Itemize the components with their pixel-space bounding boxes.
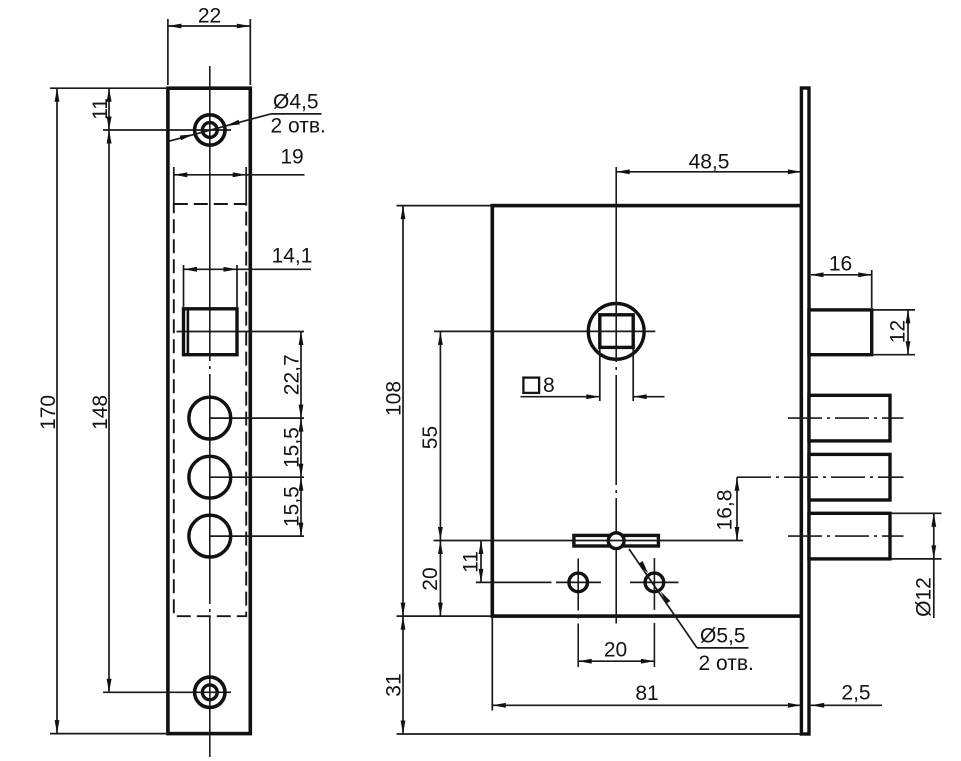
latch hole horizontal centerline: [177, 331, 305, 333]
svg-text:8: 8: [543, 374, 555, 397]
svg-text:108: 108: [383, 381, 406, 416]
svg-text:16,8: 16,8: [714, 490, 737, 531]
bolt hole 3 centerline: [210, 535, 304, 537]
dimension 81 body width: [492, 616, 801, 710]
faceplate front view outline: [168, 88, 250, 733]
svg-text:11: 11: [460, 551, 483, 573]
svg-text:170: 170: [37, 395, 60, 430]
dimension square 8 spindle hole: [521, 347, 665, 401]
dimension 16 latch protrusion: [810, 252, 872, 308]
svg-text:2 отв.: 2 отв.: [699, 652, 754, 675]
bolt hole 2: [189, 456, 231, 498]
svg-text:48,5: 48,5: [689, 151, 730, 174]
deadbolt 3 side view: [809, 513, 890, 559]
latch bolt side view: [809, 310, 872, 355]
svg-text:22: 22: [198, 5, 221, 28]
svg-text:55: 55: [419, 426, 442, 449]
fixing hole right: [645, 573, 664, 592]
svg-text:2 отв.: 2 отв.: [271, 115, 326, 138]
spindle square hole 8mm: [600, 315, 633, 348]
cam bar centerline: [434, 540, 744, 542]
dimension 170 faceplate height: [37, 88, 166, 733]
dimension 16,8 deadbolt2 to cam: [714, 477, 740, 540]
spindle vertical centerline: [615, 167, 617, 624]
svg-text:81: 81: [635, 682, 658, 705]
bolt hole 2 centerline: [210, 476, 304, 478]
fixing hole right centerline vertical: [653, 558, 655, 667]
top screw hole: [195, 115, 225, 145]
dimension 19 body width: [174, 146, 305, 204]
svg-text:11: 11: [89, 98, 112, 120]
dimension 12 latch height: [873, 310, 915, 355]
dimension 11 cam to fixing holes: [460, 541, 484, 583]
bolt hole 1 centerline: [210, 417, 304, 419]
fixing hole left centerline horizontal: [476, 581, 601, 583]
dimension 11 top hole offset: [89, 88, 112, 130]
deadbolt 1 centerline: [788, 417, 904, 419]
svg-text:31: 31: [383, 673, 406, 696]
dimension 22 faceplate width: [168, 5, 250, 86]
dimension diameter 12 deadbolt: [892, 513, 942, 618]
faceplate side view strip: [801, 88, 809, 734]
deadbolt 3 centerline: [788, 535, 904, 537]
dimension 31 body bottom to faceplate end: [383, 616, 801, 734]
deadbolt 2 side view: [809, 454, 890, 500]
dimension 55 spindle to cam: [419, 331, 443, 540]
spindle hub circle: [588, 304, 644, 360]
fixing hole left: [569, 573, 588, 592]
leader diameter 5,5 2 holes: [629, 549, 754, 675]
svg-text:20: 20: [604, 639, 627, 662]
svg-text:15,5: 15,5: [281, 486, 304, 527]
dimension 20 cam to body bottom: [419, 541, 443, 617]
dimension 2,5 faceplate thickness: [811, 682, 882, 708]
dimension 48,5 spindle to faceplate: [616, 151, 801, 175]
dimension 20 fixing hole spacing: [578, 639, 654, 664]
fixing hole right centerline horizontal: [630, 581, 679, 583]
svg-text:22,7: 22,7: [281, 354, 304, 395]
top screw hole centerline: [103, 129, 231, 131]
key cam bar: [574, 533, 659, 549]
dimension 108 body height: [383, 206, 492, 616]
hidden lock body outline (dashed): [174, 204, 246, 616]
spindle horizontal centerline: [434, 330, 655, 332]
deadbolt 1 side view: [809, 395, 890, 441]
svg-text:Ø5,5: Ø5,5: [700, 625, 746, 648]
leader diameter 4,5 2 holes: [169, 90, 326, 141]
lock body side view outline: [492, 206, 801, 616]
svg-text:Ø4,5: Ø4,5: [273, 90, 319, 113]
svg-text:16: 16: [829, 252, 852, 275]
dimension 22,7 latch to bolt1: [281, 332, 304, 419]
svg-text:15,5: 15,5: [281, 427, 304, 468]
dimension 15,5 bolt2 to bolt3: [281, 477, 304, 536]
deadbolt 2 centerline: [737, 476, 904, 478]
bolt hole 1: [189, 397, 231, 439]
latch square opening: [184, 309, 238, 355]
dimension 15,5 bolt1 to bolt2: [281, 418, 304, 477]
svg-text:19: 19: [280, 146, 303, 169]
svg-text:12: 12: [887, 320, 910, 343]
faceplate vertical centerline: [209, 66, 211, 757]
bottom screw hole centerline: [103, 691, 231, 693]
bolt hole 3: [189, 515, 231, 557]
fixing hole left centerline vertical: [577, 559, 579, 668]
svg-text:148: 148: [89, 395, 112, 430]
svg-text:Ø12: Ø12: [913, 577, 936, 617]
svg-text:2,5: 2,5: [841, 682, 870, 705]
svg-text:20: 20: [419, 567, 442, 590]
dimension 148 screw hole spacing: [89, 130, 112, 692]
svg-text:14,1: 14,1: [272, 245, 313, 268]
dimension 14,1 latch opening width: [184, 245, 313, 308]
bottom screw hole: [195, 677, 225, 707]
